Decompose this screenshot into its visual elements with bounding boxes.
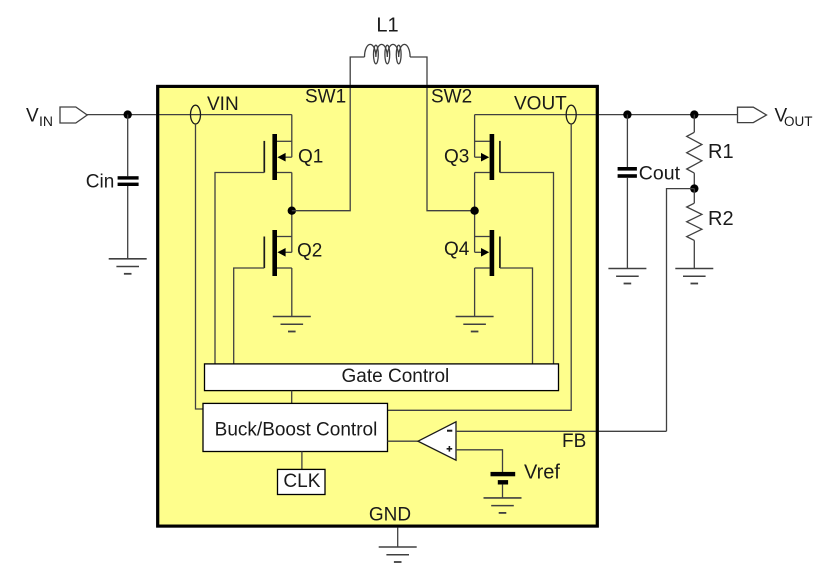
wire Q1 source to Q2 drain bbox=[291, 173, 293, 253]
op-amp error comparator bbox=[418, 422, 456, 460]
svg-text:Buck/Boost Control: Buck/Boost Control bbox=[215, 419, 378, 440]
svg-text:Cout: Cout bbox=[639, 162, 681, 184]
wire VOUT sense to Buck/Boost Control bbox=[388, 124, 572, 410]
svg-text:Q2: Q2 bbox=[297, 241, 322, 262]
svg-text:FB: FB bbox=[562, 431, 586, 452]
svg-text:R1: R1 bbox=[708, 141, 734, 163]
wire VIN sense to Buck/Boost Control bbox=[196, 124, 204, 409]
transistor Q2 bbox=[264, 230, 292, 276]
ground Q2 source bbox=[273, 317, 311, 332]
voltage reference Vref bbox=[491, 472, 516, 498]
block CLK bbox=[278, 469, 326, 494]
svg-text:Cin: Cin bbox=[86, 171, 115, 192]
svg-text:IN: IN bbox=[39, 113, 53, 129]
ground Vref bbox=[484, 498, 522, 513]
IC body U1 border (overlay) bbox=[158, 86, 598, 526]
wire SW1 bbox=[292, 57, 365, 211]
wire Q4 gate bbox=[500, 268, 533, 364]
ground Cin bbox=[109, 259, 147, 274]
junction node R1 tap bbox=[690, 110, 698, 118]
wire VIN rail bbox=[87, 114, 292, 116]
ground Cout bbox=[608, 269, 646, 284]
svg-text:V: V bbox=[26, 105, 39, 126]
wire Q4 source lead bbox=[474, 268, 476, 317]
wire Cout top lead bbox=[626, 115, 628, 167]
wire Q3 drain vertical bbox=[474, 115, 476, 158]
junction node SW2 bbox=[470, 207, 478, 215]
wire FB to comparator inverting input bbox=[456, 430, 667, 432]
input port VIN bbox=[60, 107, 87, 123]
svg-text:GND: GND bbox=[369, 505, 411, 526]
block Gate Control bbox=[205, 364, 559, 391]
output port VOUT bbox=[738, 107, 767, 122]
transistor Q3 bbox=[475, 134, 500, 180]
wire Cout bottom lead bbox=[626, 178, 628, 269]
wire VOUT rail bbox=[475, 114, 738, 116]
wire Q3 gate bbox=[500, 173, 554, 364]
svg-text:VIN: VIN bbox=[207, 94, 239, 115]
junction node FB bbox=[690, 184, 698, 192]
svg-text:Vref: Vref bbox=[524, 462, 560, 484]
svg-text:R2: R2 bbox=[708, 208, 734, 230]
capacitor Cin bbox=[118, 176, 139, 186]
transistor Q1 bbox=[264, 134, 292, 180]
wire Q3 source to Q4 drain bbox=[474, 173, 476, 253]
svg-text:L1: L1 bbox=[376, 15, 398, 37]
svg-text:SW2: SW2 bbox=[431, 86, 472, 107]
wire Gate Control to Buck/Boost bbox=[291, 391, 293, 404]
pin VOUT ellipse bbox=[566, 105, 576, 124]
wire comparator non-inverting input to Vref bbox=[456, 450, 503, 473]
IC body U1 bbox=[158, 86, 598, 526]
svg-text:SW1: SW1 bbox=[305, 86, 346, 107]
wire FB feedback bbox=[667, 189, 695, 432]
wire Q2 source lead bbox=[291, 268, 293, 317]
resistor R2 bbox=[687, 189, 702, 269]
block Buck/Boost Control bbox=[203, 403, 388, 451]
junction node Cin tap bbox=[124, 110, 132, 118]
resistor R1 bbox=[687, 115, 702, 189]
ground GND bbox=[379, 547, 417, 562]
wire Buck/Boost to CLK bbox=[301, 452, 303, 470]
wire SW2 bbox=[410, 57, 475, 211]
wire Q1 gate bbox=[215, 173, 264, 364]
wire GND lead bbox=[397, 528, 399, 547]
svg-text:Q3: Q3 bbox=[444, 146, 469, 167]
wire Cin top lead bbox=[127, 115, 129, 177]
transistor Q4 bbox=[475, 230, 500, 276]
svg-text:Q4: Q4 bbox=[444, 239, 470, 260]
svg-text:OUT: OUT bbox=[784, 114, 813, 129]
svg-text:Gate Control: Gate Control bbox=[342, 366, 450, 387]
ground Q4 source bbox=[456, 317, 494, 332]
ground R2 bbox=[675, 269, 713, 284]
capacitor Cout bbox=[618, 167, 637, 178]
junction node SW1 bbox=[288, 207, 296, 215]
wire Cin bottom lead bbox=[127, 186, 129, 259]
pin VIN ellipse bbox=[191, 105, 201, 124]
svg-text:CLK: CLK bbox=[283, 471, 320, 492]
wire Q2 gate bbox=[234, 268, 265, 364]
inductor L1 bbox=[364, 44, 410, 63]
junction node Cout tap bbox=[623, 110, 631, 118]
svg-text:Q1: Q1 bbox=[298, 146, 323, 167]
wire comparator output bbox=[388, 440, 419, 442]
wire Q1 drain vertical bbox=[291, 115, 293, 158]
svg-text:VOUT: VOUT bbox=[514, 94, 567, 115]
